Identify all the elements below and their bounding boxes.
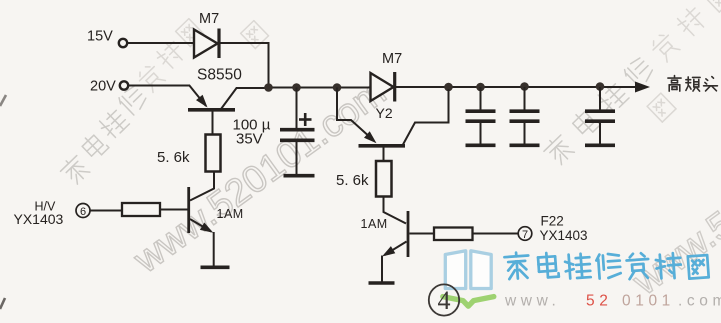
svg-text:15V: 15V [87,29,113,45]
wire rail to C1 [296,88,298,129]
svg-text:M7: M7 [199,11,219,27]
transistor Q2 emitter with arrow [190,219,211,232]
ground C1 [284,174,315,178]
node junction J1 on rail [264,83,273,92]
node junction J7 on rail [596,82,605,91]
arrow to tuner [635,82,650,93]
circled 4 page marker [429,284,459,315]
transistor Q2 base lead from R2 [160,209,188,211]
wire R3 to Q4 collector [384,197,407,224]
svg-text:4: 4 [438,286,451,315]
wire main rail left segment [265,87,371,89]
scan speck left edge upper [0,95,6,106]
label 高频头 (tuner) [668,76,681,92]
wire main rail right segment [394,86,636,88]
capacitor C3 [524,87,526,110]
ground C2 [466,144,496,148]
terminal circled 6 [76,204,90,218]
wire C1 to ground [296,142,298,174]
logo book icon [445,251,491,289]
transistor Q3 emitter from rail with arrow [337,88,372,140]
transistor Q1 base lead down [212,112,214,135]
svg-text:35V: 35V [236,131,263,148]
ground Q2 [201,265,230,269]
node junction J6 on rail [520,82,529,91]
terminal 20V [120,81,128,89]
svg-text:F22: F22 [541,214,564,229]
wire 6 to R2 [90,210,122,212]
plus sign C1 [299,118,312,121]
capacitor C4 [599,87,601,110]
svg-text:6: 6 [80,206,86,218]
svg-text:www.: www. [504,293,560,310]
svg-text:YX1403: YX1403 [540,228,588,243]
resistor R1 5.6k [206,135,221,172]
node junction J5 on rail [476,83,485,92]
diode M7 (D1) [194,30,218,58]
wire 15V to diode D1 [127,42,193,44]
terminal 15V [119,39,127,47]
transistor Q4 base bar [407,211,410,257]
transistor Q1 collector [221,88,266,109]
svg-text:YX1403: YX1403 [14,211,64,227]
svg-text:5. 6k: 5. 6k [336,172,369,189]
capacitor C2 [480,87,482,110]
transistor Q4 base lead to R4 [410,233,435,235]
transistor Q1 emitter with arrow [189,85,206,106]
svg-text:S8550: S8550 [197,67,242,84]
logo text 家电维修资料网 [504,252,530,280]
transistor Q2 base bar [187,187,190,233]
ground C3 [510,144,540,148]
wire D1 cathode to corner [219,42,269,44]
logo green swoosh [443,297,494,307]
node junction J3 on rail [333,83,342,92]
terminal circled 7 [518,227,532,241]
transistor Q1 base bar [188,108,235,112]
transistor Q3 collector [403,89,449,145]
wire R4 to circled 7 [473,233,519,235]
transistor Q3 base lead down [383,148,385,162]
wire Q4 emitter to ground [381,256,383,282]
svg-text:.com: .com [678,293,721,310]
svg-text:52: 52 [586,293,612,310]
svg-text:20V: 20V [90,79,116,95]
watermark diagonal line C: 家电维修资料网 (right) [541,132,576,167]
transistor Q4 emitter with arrow [385,242,407,256]
ground C4 [585,144,615,148]
ground Q4 [369,281,395,285]
capacitor C1 plates [280,128,315,132]
svg-text:7: 7 [522,229,528,241]
scan speck left edge lower [0,298,5,309]
wire R1 to Q2 collector [190,172,214,201]
watermark diagonal line A: 家电维修资料网 (left) [58,153,91,186]
svg-text:M7: M7 [382,51,402,67]
diode M7 (D2) [371,73,394,101]
resistor R3 5.6k [376,161,392,197]
resistor R4 [434,228,473,241]
wire corner down to rail node [268,42,270,87]
resistor R2 [122,203,160,216]
node junction J4 on rail [444,83,453,92]
svg-text:5. 6k: 5. 6k [157,149,190,166]
svg-text:1AM: 1AM [361,217,388,231]
svg-text:0101: 0101 [622,293,675,310]
wire 20V to Q1 emitter [128,85,190,87]
transistor Q3 base bar [359,144,406,148]
svg-text:1AM: 1AM [217,207,244,221]
node junction J2 on rail [292,83,301,92]
svg-text:Y2: Y2 [376,105,393,121]
wire Q2 emitter to ground [213,232,215,266]
